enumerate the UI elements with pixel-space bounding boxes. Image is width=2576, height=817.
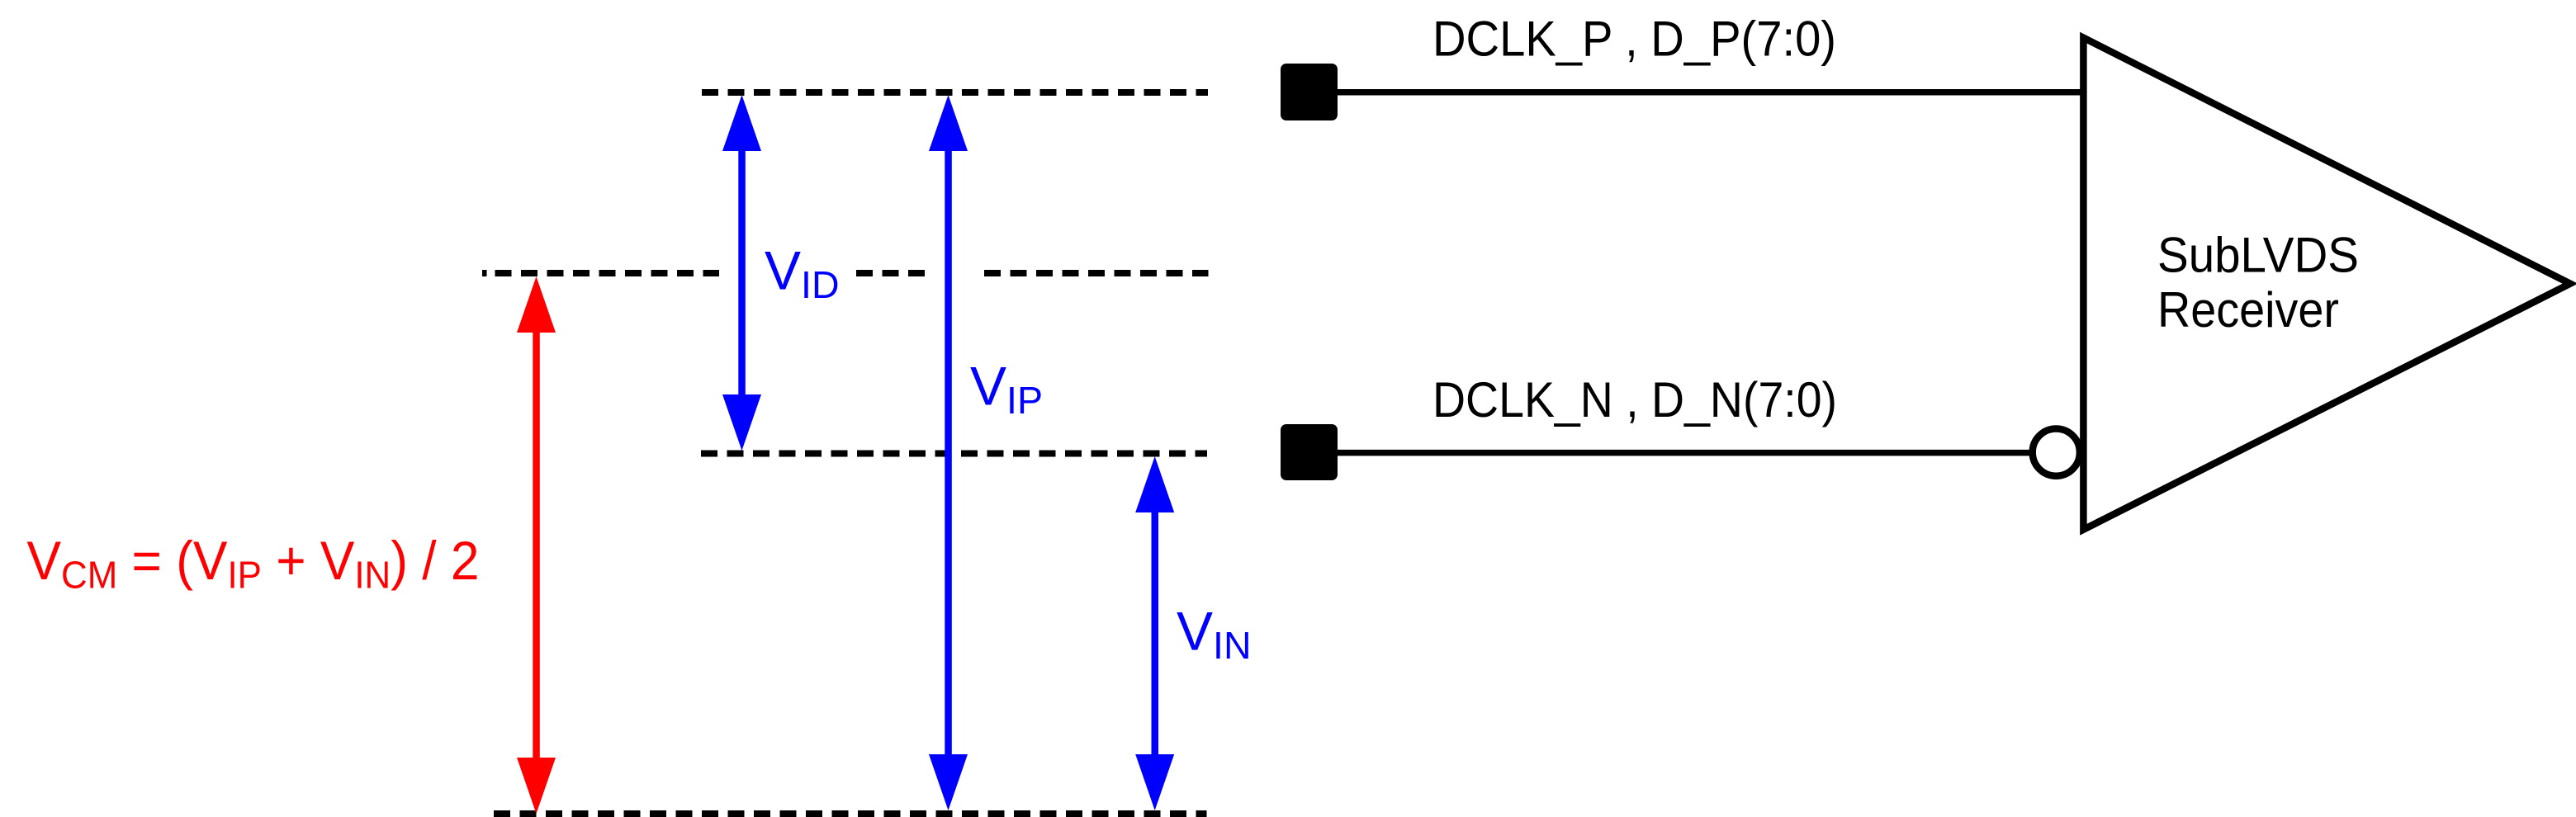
node VCM level: dashed segment left [495,270,720,276]
wire DCLK_P [1338,89,2083,96]
svg-text:SubLVDS: SubLVDS [2157,228,2359,283]
inversion bubble on negative input [2033,429,2080,476]
node VCM level: start dot [482,270,487,276]
arrow VCM (red double-headed) [517,276,556,814]
svg-text:DCLK_N , D_N(7:0): DCLK_N , D_N(7:0) [1432,372,1837,427]
pad DCLK_N (black square) [1281,424,1338,480]
node level line: differential high (top dashed) [702,89,1208,96]
svg-text:DCLK_P , D_P(7:0): DCLK_P , D_P(7:0) [1432,12,1836,67]
svg-text:VID: VID [765,240,840,306]
wire DCLK_N [1338,450,2033,456]
op-amp U1: SubLVDS receiver triangle [2083,38,2570,530]
svg-text:Receiver: Receiver [2157,282,2339,338]
arrow VID (blue double-headed) [722,95,761,451]
svg-text:VIN: VIN [1177,601,1252,667]
node VCM level: dashed segment middle [856,270,926,276]
arrow VIN (blue double-headed) [1135,456,1174,810]
node VCM level: dashed segment right [984,270,1209,276]
pad DCLK_P (black square) [1281,64,1338,120]
svg-text:VCM = (VIP + VIN) / 2: VCM = (VIP + VIN) / 2 [27,530,480,596]
node level line: ground reference (bottom dashed) [494,810,1207,817]
svg-text:VIP: VIP [970,356,1043,422]
arrow VIP (blue double-headed) [929,95,968,810]
node level line: differential low (third dashed) [701,451,1207,457]
